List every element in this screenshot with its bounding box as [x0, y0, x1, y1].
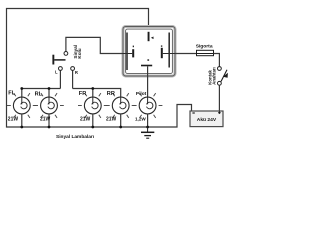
node junction left bus at RL — [48, 87, 51, 90]
svg-text:Sigorta: Sigorta — [196, 44, 213, 50]
svg-text:R: R — [75, 70, 78, 75]
relay U1 flasher box — [123, 27, 175, 77]
svg-text:RL: RL — [35, 91, 43, 97]
relay right contact strip — [168, 33, 170, 68]
fuse F1 Sigorta — [197, 50, 214, 55]
svg-text:21W: 21W — [80, 117, 91, 123]
wire outer loop: relay top terminal to left edge down to ground bus to battery minus — [7, 9, 192, 128]
svg-text:RR: RR — [107, 91, 115, 97]
relay terminal bottom (pin) — [141, 59, 152, 66]
wire ignition switch to battery plus — [218, 85, 220, 111]
wire FR lamp drop — [92, 89, 94, 98]
wire RL lamp drop — [48, 89, 50, 98]
svg-text:FR: FR — [79, 91, 86, 97]
battery BT1 Aku 24V — [190, 111, 223, 127]
wire relay right to fuse — [175, 53, 197, 55]
contact R — [71, 67, 75, 71]
relay left contact strip — [126, 33, 128, 71]
lamp FL — [7, 93, 37, 118]
wire left lamp bus — [22, 89, 61, 98]
switch handle bar — [52, 55, 54, 65]
switch lever arm — [54, 59, 65, 61]
contact L — [59, 67, 63, 71]
switch SW1 Sinyal Kolu — [52, 52, 74, 71]
svg-text:Kolu: Kolu — [77, 48, 82, 58]
svg-text:Akü 24V: Akü 24V — [197, 117, 217, 123]
wire lamp bottoms to ground bus — [22, 114, 148, 127]
label Sinyal Kolu (rotated) — [73, 45, 82, 59]
svg-text:L: L — [55, 70, 58, 75]
node junctions on ground bus — [20, 126, 149, 129]
ground symbol — [141, 127, 154, 138]
svg-text:Sinyal Lambaları: Sinyal Lambaları — [56, 134, 94, 140]
svg-text:21W: 21W — [8, 117, 19, 123]
relay terminal left (pin) — [123, 46, 135, 58]
relay terminal top (pin) — [148, 32, 154, 41]
node junction left bus at FL — [20, 87, 23, 90]
lamp FR — [78, 93, 108, 118]
svg-text:Anahtarı: Anahtarı — [211, 67, 216, 84]
svg-text:21W: 21W — [40, 117, 51, 123]
switch SW2 Kontak Anahtari — [218, 67, 228, 86]
wire right lamp bus — [73, 89, 121, 98]
wire fuse to ignition switch — [214, 54, 220, 67]
wire relay bottom to pilot lamp — [147, 66, 149, 97]
label Kontak Anahtari (rotated) — [207, 67, 216, 84]
node junction right bus at FR — [91, 87, 94, 90]
lamp RL — [34, 93, 64, 118]
wire: sinyal kolu common up-over to relay left terminal — [66, 37, 123, 53]
switch common contact — [64, 52, 68, 56]
lamp RR — [106, 93, 136, 118]
svg-text:FL: FL — [8, 90, 15, 96]
wire R contact down to right lamp bus — [72, 71, 74, 89]
svg-text:1,2W: 1,2W — [135, 117, 146, 122]
svg-text:21W: 21W — [106, 117, 117, 123]
wire L contact down to left lamp bus — [59, 71, 61, 89]
relay terminal right (pin) — [161, 45, 175, 58]
svg-text:Pilot: Pilot — [136, 91, 147, 97]
lamp Pilot — [133, 93, 163, 118]
